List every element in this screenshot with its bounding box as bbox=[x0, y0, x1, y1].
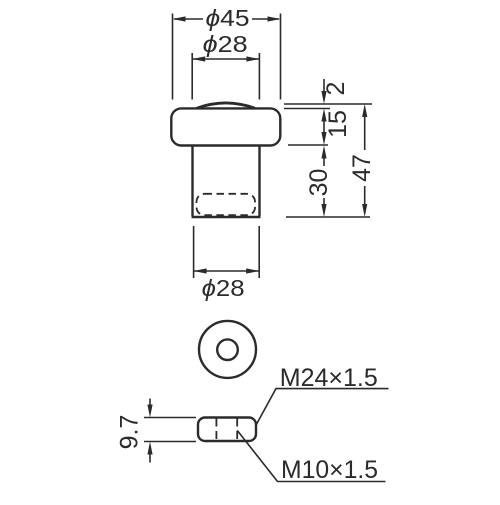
dimension phi28 top: extension lines bbox=[192, 53, 259, 100]
dimension phi28 bottom: extension lines bbox=[194, 226, 260, 278]
dimension 47: arrows and text bbox=[362, 104, 367, 217]
front view: hidden thread insert (dashed) bbox=[197, 194, 256, 215]
bottom view: hidden hole line left (dashed) bbox=[215, 419, 217, 441]
svg-text:ϕ28: ϕ28 bbox=[202, 275, 245, 301]
right extension line: cap top bbox=[284, 108, 330, 110]
top view: outer circle bbox=[199, 321, 256, 378]
bottom view: hidden hole line right (dashed) bbox=[236, 419, 238, 441]
front view: cap outline bbox=[171, 108, 280, 145]
label M24x1.5 bbox=[280, 364, 378, 392]
front view: stem outline bbox=[192, 147, 261, 218]
dimension 15: arrows and text bbox=[321, 109, 326, 146]
dimension 9.7: extension lines bbox=[144, 418, 196, 442]
dimension 30: arrows and text bbox=[321, 146, 326, 218]
front view: rubber dome top bbox=[197, 103, 256, 108]
svg-text:47: 47 bbox=[348, 154, 376, 182]
dimension phi45: extension lines bbox=[173, 14, 281, 100]
dimension phi28 bottom: dimension line with arrows bbox=[194, 268, 260, 273]
top view: inner hole circle bbox=[217, 339, 238, 360]
dimension phi28 top: text bbox=[203, 31, 248, 57]
dimension phi45: dimension line with arrows bbox=[173, 16, 281, 21]
leader line M10x1.5 bbox=[237, 430, 385, 481]
right extension line: cap bottom bbox=[288, 144, 328, 146]
bottom view: nut body outline bbox=[198, 418, 256, 442]
svg-text:M24×1.5: M24×1.5 bbox=[280, 364, 378, 392]
svg-text:ϕ28: ϕ28 bbox=[203, 31, 248, 57]
dimension 9.7: text bbox=[116, 415, 144, 450]
right extension line: dome top bbox=[284, 103, 372, 105]
svg-text:M10×1.5: M10×1.5 bbox=[281, 456, 378, 484]
dimension phi28 top: dimension line with arrows bbox=[192, 56, 259, 61]
svg-text:30: 30 bbox=[305, 169, 333, 197]
svg-text:15: 15 bbox=[324, 110, 352, 138]
svg-text:ϕ45: ϕ45 bbox=[206, 5, 250, 31]
leader line M24x1.5 bbox=[256, 389, 388, 425]
dimension 9.7: arrows bbox=[147, 399, 152, 463]
dimension phi45: text bbox=[206, 5, 250, 31]
label M10x1.5 bbox=[281, 456, 378, 484]
dimension phi28 bottom: text bbox=[202, 275, 245, 301]
svg-text:2: 2 bbox=[322, 82, 350, 96]
right extension line: stem bottom bbox=[286, 216, 370, 218]
svg-text:9.7: 9.7 bbox=[116, 415, 144, 450]
dimension 2: arrow from above and text bbox=[321, 79, 326, 104]
